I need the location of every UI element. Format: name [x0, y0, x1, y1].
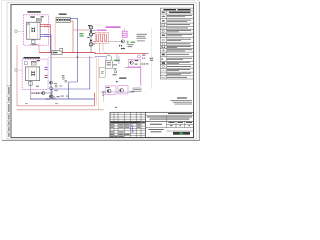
gray labels right mid [137, 34, 148, 35]
outer border [7, 3, 197, 139]
sheet shadow [2, 140, 200, 142]
aux white tank [99, 67, 105, 77]
green pipe labels T11 T21 [79, 33, 83, 34]
project name lines [147, 116, 192, 117]
small sensors mid [62, 77, 64, 79]
notes text block [171, 97, 193, 104]
red valve marks ahu1 [45, 24, 48, 26]
ahu2 unit body [25, 67, 39, 81]
recirculation pump box 2 [118, 86, 128, 94]
valves right of pump group [142, 63, 145, 65]
sheet edge [2, 1, 199, 140]
magenta pump above [138, 55, 141, 58]
left margin attribute boxes [7, 86, 11, 133]
red drop from ahu1 bottom [38, 44, 40, 53]
ahu1 unit body [27, 22, 41, 39]
legend row texts [167, 15, 192, 78]
red left drain line [17, 45, 94, 106]
red supply stubs from ahu1 [40, 25, 50, 53]
blue stub pump chain [93, 29, 96, 31]
coil serpentine [97, 34, 107, 42]
title block header band text [110, 122, 140, 123]
blue line from meter node [69, 18, 78, 99]
signature squiggle [131, 124, 134, 129]
recirculation pump box 1 [105, 86, 116, 95]
ahu box B-01 dashed enclosure [23, 15, 48, 45]
meter box on red bus [52, 51, 62, 55]
blue line through vessel [95, 55, 106, 57]
ahu1 heater square [32, 40, 35, 43]
small labeled box lower right [133, 88, 141, 91]
title block left rows text [111, 124, 141, 137]
meter node label [59, 14, 67, 15]
blue riser right [52, 56, 90, 99]
heat exchanger coil box [96, 32, 109, 43]
actuator asterisk green [127, 40, 129, 44]
legend table frame [160, 8, 193, 79]
wire: secondary supply run [48, 57, 95, 59]
room sensor 1 [15, 29, 18, 33]
wire: make-up water drops [95, 58, 97, 105]
blue bottom bus [30, 98, 94, 100]
lower warm line [17, 109, 104, 111]
blue return stubs from ahu1 [40, 34, 51, 99]
purple risers near vessel [116, 54, 118, 62]
legend header text [164, 9, 177, 10]
title block frame [110, 112, 194, 137]
left margin rotated text [8, 87, 9, 137]
expansion vessel [106, 55, 112, 61]
doc number top right [168, 113, 192, 114]
pump group magenta box [128, 59, 140, 67]
ahu1 fan [32, 27, 35, 32]
room sensor 2 [15, 68, 18, 71]
meter node box top middle [56, 17, 70, 22]
ahu2 piping cluster [30, 81, 32, 100]
bellows symbol [122, 28, 128, 37]
red bus mid [39, 53, 149, 54]
wire: meter feed drop [54, 22, 56, 50]
green drain dashed [103, 94, 105, 102]
small valves below [119, 45, 122, 47]
fittings right of vessel [114, 60, 120, 61]
control unit top-right [36, 18, 41, 22]
tee junction on secondary supply [77, 57, 79, 58]
label U-VR [30, 16, 35, 17]
ahu2 heater square [29, 82, 33, 86]
object cell text [150, 124, 162, 125]
kollektor label magenta [106, 26, 121, 27]
label B-01 (Klub) [27, 11, 40, 13]
light boundary line of schematic zone [151, 28, 153, 89]
red stub coil to chain [93, 41, 96, 43]
through line pumps [100, 91, 133, 93]
ahu2 control unit [31, 61, 36, 65]
pump chain vertical [90, 25, 92, 52]
red riser to bottom bus [93, 93, 95, 106]
coil label [97, 30, 107, 31]
bottom bus fittings [47, 98, 50, 100]
sheet title text [149, 129, 164, 130]
red line from meter node [70, 21, 89, 53]
label B-02 B-03 [24, 57, 41, 59]
stage/sheet headers [169, 122, 193, 126]
sheet background [0, 0, 200, 141]
magenta run below pump group [125, 66, 141, 68]
company logo [173, 132, 190, 135]
ahu2 fan [31, 71, 34, 76]
three way valve w/ actuator [109, 41, 122, 43]
inner frame [11, 5, 194, 138]
legend symbols column [161, 16, 165, 78]
ahu box B-02 dashed enclosure [22, 59, 48, 89]
